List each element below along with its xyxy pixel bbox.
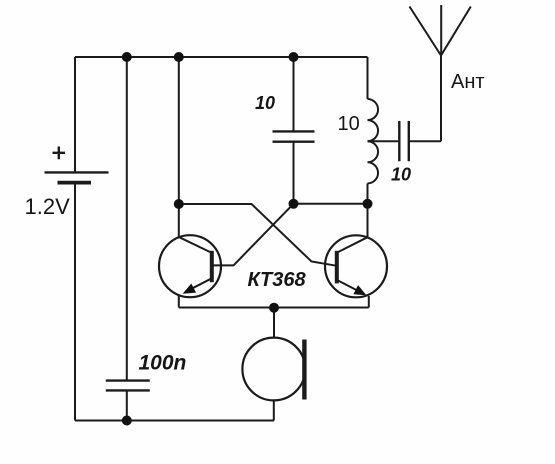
junction dot emitter rail [269, 303, 279, 313]
wire capacitor C1 branch upper [293, 57, 295, 131]
junction dot bottom rail [122, 416, 132, 426]
wire battery negative lead [74, 183, 76, 421]
junction dot node left [174, 199, 184, 209]
wire VT2 emitter lead [368, 296, 370, 308]
wire antenna lead [440, 56, 442, 142]
transistor VT1 base bar [210, 251, 214, 282]
junction dot top C3 [122, 52, 132, 62]
transistor VT2 emitter arrow [353, 285, 366, 295]
svg-text:Ант: Ант [451, 71, 485, 93]
transistor VT1 emitter arrow [183, 284, 197, 294]
transistor VT2 collector diagonal [337, 237, 367, 252]
svg-text:10: 10 [255, 93, 275, 113]
wire node row left to VT2 base diagonal [179, 204, 337, 266]
wire coil tap to C2 [368, 140, 399, 142]
svg-text:10: 10 [391, 165, 411, 185]
wire VT2 collector lead [367, 204, 369, 238]
antenna symbol [410, 5, 471, 56]
wire common emitter rail [179, 307, 369, 309]
wire capacitor C3 branch upper [126, 57, 128, 380]
transistor VT1 circle [159, 235, 221, 297]
wire bottom ground rail [75, 420, 274, 422]
inductor L1 [368, 99, 379, 183]
wire VT1 emitter lead [178, 296, 180, 308]
wire microphone lower lead [273, 400, 275, 420]
wire top supply rail [75, 56, 368, 58]
wire coil upper lead [367, 57, 369, 99]
wire coil lower lead [367, 183, 369, 204]
microphone BM1 bar [302, 340, 306, 400]
junction dot node coil [363, 199, 373, 209]
junction dot top VT1 branch [174, 52, 184, 62]
wire VT1 base to middle node diagonal [212, 204, 294, 266]
capacitor C3 100n plates [106, 381, 150, 391]
transistor VT2 circle [325, 235, 387, 297]
svg-text:1.2V: 1.2V [25, 194, 71, 219]
wire node row middle to coil node [294, 203, 368, 205]
battery GB1 short plate (-) [58, 181, 92, 185]
transistor VT1 collector diagonal [179, 237, 211, 252]
wire capacitor C1 branch lower [293, 142, 295, 204]
wire microphone upper lead [273, 308, 275, 338]
junction dot node middle [289, 199, 299, 209]
wire battery positive lead [74, 57, 76, 172]
transistor VT2 emitter diagonal [337, 280, 362, 293]
wire capacitor C3 branch lower [126, 390, 128, 420]
svg-text:100n: 100n [139, 352, 187, 375]
wire C2 to antenna [410, 140, 441, 142]
transistor VT1 emitter diagonal [187, 278, 212, 291]
battery GB1 long plate (+) [45, 171, 109, 173]
microphone BM1 circle [242, 338, 305, 401]
svg-text:КТ368: КТ368 [248, 269, 307, 291]
junction dot top C1 branch [289, 52, 299, 62]
svg-text:10: 10 [338, 113, 360, 135]
wire VT1 collector branch [178, 57, 180, 238]
capacitor C1 10 plates [273, 131, 315, 141]
transistor VT2 base bar [335, 251, 339, 284]
capacitor C2 10 plates [399, 121, 409, 161]
plus sign [53, 147, 66, 160]
